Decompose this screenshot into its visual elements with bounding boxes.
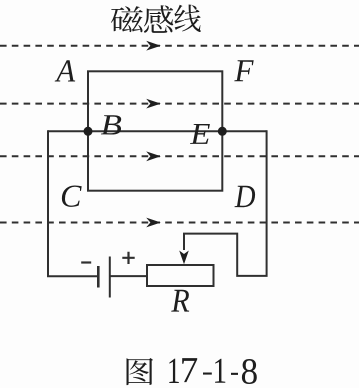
- label B: [101, 115, 121, 134]
- wire: battery positive to rheostat left terminal: [110, 275, 147, 277]
- wire: left branch from node B down to battery negative terminal: [48, 130, 97, 276]
- title char 线: [174, 5, 200, 32]
- caption hyphen: [203, 372, 212, 374]
- label E: [190, 124, 210, 144]
- caption digit 8: [242, 359, 257, 384]
- wire: wiper branch from node E down and around to slider: [184, 130, 267, 276]
- title char 磁: [111, 6, 143, 32]
- battery negative plate (short): [97, 266, 100, 288]
- label F: [234, 60, 253, 81]
- node B (junction dot): [84, 127, 93, 136]
- label A: [55, 60, 76, 81]
- magnetic field line 4 (dashed): [0, 222, 359, 224]
- magnetic field line 2 (dashed): [0, 103, 359, 105]
- field line 3 arrowhead: [146, 151, 161, 161]
- battery plus sign: [122, 252, 134, 264]
- caption hyphen: [231, 373, 238, 375]
- label R: [171, 290, 189, 312]
- field line 4 arrowhead: [146, 218, 161, 228]
- wire: horizontal conductor through nodes B and E: [48, 130, 267, 132]
- magnetic field line 3 (dashed): [0, 155, 359, 157]
- caption digit 7: [182, 358, 197, 382]
- caption digit 1: [169, 359, 178, 383]
- field line 2 arrowhead: [146, 99, 161, 109]
- label D: [234, 186, 255, 207]
- caption digit 1: [215, 359, 225, 383]
- battery positive plate (long): [109, 257, 111, 298]
- rheostat R body (box): [147, 265, 214, 286]
- wire: rectangular loop A-F-E-B / B-E-D-C outline: [88, 71, 222, 190]
- title char 感: [144, 5, 173, 33]
- label C: [62, 185, 82, 206]
- magnetic field line 1 (dashed): [0, 45, 359, 47]
- node E (junction dot): [218, 127, 227, 136]
- field line 1 arrowhead: [146, 41, 161, 51]
- rheostat slider arrowhead (points down onto R): [179, 251, 189, 265]
- battery minus sign: [81, 261, 91, 263]
- caption char 图: [127, 358, 154, 385]
